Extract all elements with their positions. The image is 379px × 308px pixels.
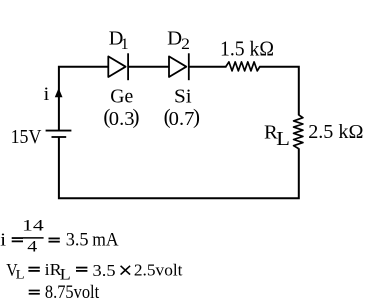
svg-text:L: L <box>60 266 71 283</box>
svg-text:Ge: Ge <box>110 85 133 107</box>
diode D2 cathode bar <box>188 53 190 80</box>
battery B1 15V: long top plate <box>46 130 72 132</box>
current arrow (i) on left wire <box>55 88 63 97</box>
svg-text:0.3: 0.3 <box>109 108 135 130</box>
svg-text:): ) <box>193 104 200 128</box>
svg-text:i: i <box>44 85 50 105</box>
svg-text:Si: Si <box>174 86 192 108</box>
svg-text:3.5: 3.5 <box>66 230 89 251</box>
svg-text:0.7: 0.7 <box>169 108 195 130</box>
svg-text:L: L <box>276 129 290 150</box>
svg-text:8.75volt: 8.75volt <box>45 282 100 303</box>
svg-text:mA: mA <box>92 230 119 251</box>
resistor RL (vertical zigzag) <box>294 115 303 149</box>
wire: D1 cathode bar to D2 anode <box>128 66 169 68</box>
equals sign 3 <box>29 290 40 292</box>
svg-text:1: 1 <box>121 36 129 53</box>
equals sign 2b <box>76 267 87 269</box>
svg-text:3.5: 3.5 <box>93 261 116 280</box>
diode D1 (Ge): triangle <box>108 56 125 77</box>
svg-text:4: 4 <box>27 239 37 256</box>
svg-text:1.5 kΩ: 1.5 kΩ <box>220 39 274 61</box>
equals sign 1a <box>12 237 23 239</box>
wire: 1.5k resistor to top-right corner, down to RL top <box>259 67 298 116</box>
resistor 1.5 kOhm (horizontal zigzag) <box>226 62 260 71</box>
svg-text:2: 2 <box>181 36 190 53</box>
svg-text:2.5 kΩ: 2.5 kΩ <box>308 121 363 143</box>
svg-text:): ) <box>133 104 140 128</box>
wire: RL bottom to bottom-right corner, bottom run, up to battery bottom plate <box>59 137 299 198</box>
wire: D2 cathode bar to 1.5k resistor <box>189 66 227 68</box>
svg-text:i: i <box>0 229 6 249</box>
battery B1 15V: short bottom plate <box>52 136 67 138</box>
svg-text:2.5volt: 2.5volt <box>134 261 183 280</box>
wire: left vertical from battery top plate up to top-left corner, then top run to D1 anode <box>59 67 108 131</box>
diode D1 cathode bar <box>127 53 129 80</box>
equals sign 2a <box>28 267 39 269</box>
svg-text:D: D <box>167 28 182 50</box>
svg-text:15V: 15V <box>11 127 42 148</box>
equals sign 1b <box>49 237 60 239</box>
svg-text:14: 14 <box>22 218 44 235</box>
multiplication sign <box>121 266 131 275</box>
svg-text:L: L <box>16 268 25 282</box>
fraction bar <box>23 237 44 239</box>
diode D2 (Si): triangle <box>169 56 186 77</box>
